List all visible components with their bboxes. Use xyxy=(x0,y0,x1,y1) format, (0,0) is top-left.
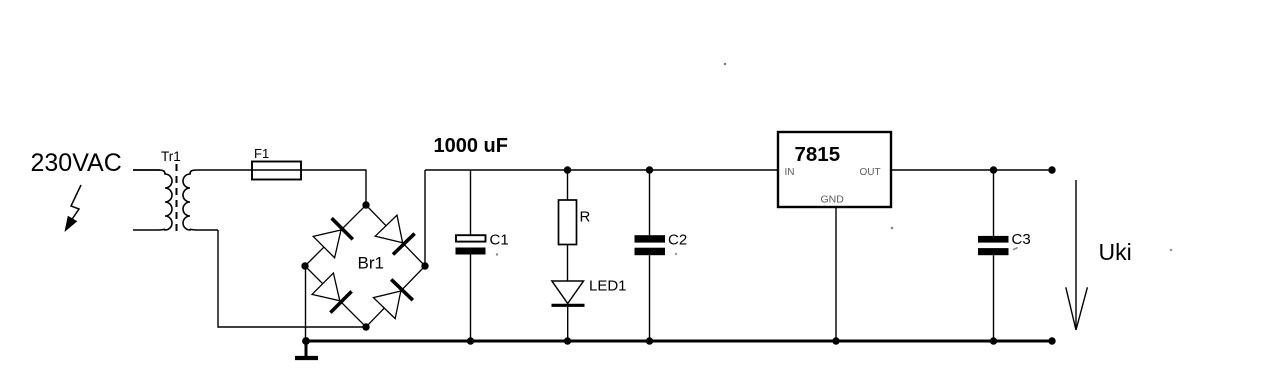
bridge diode D1 (left node to top node) xyxy=(313,218,353,258)
svg-text:Tr1: Tr1 xyxy=(161,149,181,164)
ground symbol xyxy=(295,341,318,358)
transformer Tr1 secondary winding xyxy=(183,170,252,230)
svg-text:C3: C3 xyxy=(1012,231,1031,248)
node: bridge left xyxy=(301,262,308,269)
svg-text:230VAC: 230VAC xyxy=(31,149,122,177)
speck artifacts xyxy=(724,63,726,65)
wire: secondary bottom to bridge bottom node xyxy=(218,230,364,327)
svg-text:GND: GND xyxy=(821,194,845,206)
capacitor C3 xyxy=(978,170,1009,341)
svg-text:Uki: Uki xyxy=(1099,239,1132,265)
lightning arrow (AC source) xyxy=(65,185,82,232)
node: bridge right xyxy=(421,262,428,269)
LED LED1 xyxy=(552,281,585,341)
node: ground junction xyxy=(302,337,310,345)
node: C2 top xyxy=(646,166,653,173)
wire: positive rail from bridge to 7815 IN xyxy=(425,169,778,171)
svg-text:C1: C1 xyxy=(490,232,509,249)
wire: 7815 GND pin to ground rail xyxy=(835,207,837,341)
wire: bridge left node down to ground rail xyxy=(305,266,307,341)
node: R top xyxy=(564,166,571,173)
resistor R xyxy=(559,170,577,281)
node: 7815 GND bottom xyxy=(832,337,839,344)
wire: 230VAC to primary top xyxy=(133,169,160,171)
svg-text:7815: 7815 xyxy=(795,143,841,166)
Uki output arrow xyxy=(1066,180,1088,330)
svg-text:R: R xyxy=(580,209,591,226)
node: output terminal - xyxy=(1048,337,1055,344)
svg-text:LED1: LED1 xyxy=(589,278,627,295)
svg-text:IN: IN xyxy=(785,167,795,178)
node: C2 bottom xyxy=(646,337,653,344)
node: bridge bottom xyxy=(362,323,369,330)
svg-text:C2: C2 xyxy=(668,232,687,249)
svg-text:Br1: Br1 xyxy=(358,254,384,273)
bridge Br1 diamond frame xyxy=(305,205,425,327)
fuse F1 xyxy=(252,162,301,180)
bridge diode D3 (left node to bottom node) xyxy=(312,273,352,313)
wire: 7815 OUT to output terminal xyxy=(891,169,1052,171)
node: C3 bottom xyxy=(990,337,997,344)
svg-text:OUT: OUT xyxy=(860,167,881,178)
svg-text:1000 uF: 1000 uF xyxy=(434,135,508,157)
node: LED bottom xyxy=(564,337,571,344)
wire: bridge right node up to positive rail xyxy=(424,170,426,266)
node: C3 top xyxy=(990,166,997,173)
svg-text:F1: F1 xyxy=(254,146,269,161)
capacitor C1 xyxy=(456,170,486,341)
bridge diode D4 (bottom node to right node) xyxy=(373,279,412,318)
transformer Tr1 core (dashed) xyxy=(176,164,178,236)
wire: fuse to bridge top corner xyxy=(252,170,366,203)
bridge diode D2 (top node to right node) xyxy=(375,215,414,254)
transformer Tr1 primary winding xyxy=(133,170,172,230)
regulator U1 7815 xyxy=(778,132,891,207)
node: bridge top xyxy=(362,201,369,208)
ground rail xyxy=(306,340,1053,343)
node: output terminal + xyxy=(1048,166,1055,173)
capacitor C2 xyxy=(635,170,666,341)
node: C1 bottom xyxy=(467,337,474,344)
